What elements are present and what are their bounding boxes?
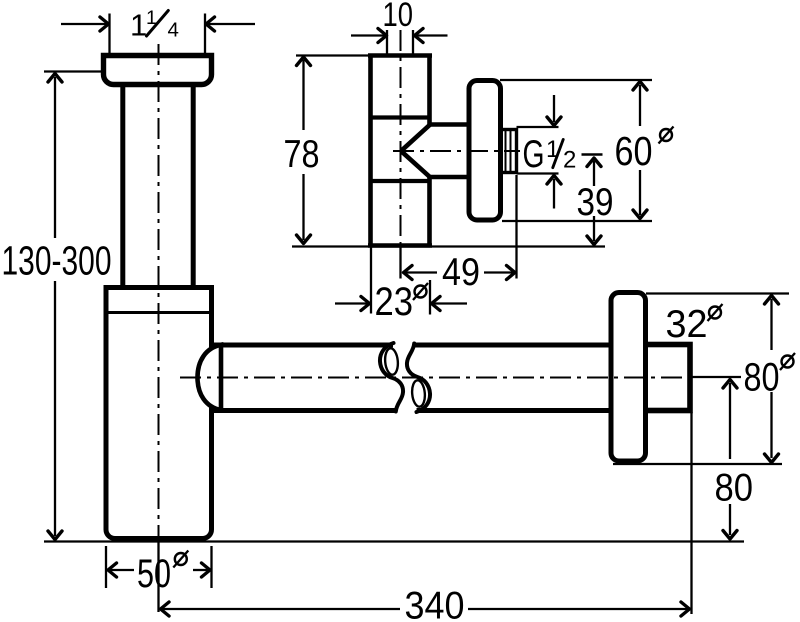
outlet pipe right piece: [415, 345, 615, 411]
valve cone seat: [401, 124, 431, 177]
dimension G1/2 thread height arrows: [517, 95, 562, 209]
svg-text:340: 340: [405, 585, 465, 622]
wall flange rosette: [611, 293, 646, 462]
wall pipe stub (80 dia): [643, 345, 690, 411]
dimension 130-300 (adjustable height): [2, 72, 112, 540]
dimension 78 (valve height): [284, 56, 606, 247]
dimension 49 (axis to thread end): [401, 175, 517, 294]
dimension 80 dia (wall flange): [613, 294, 795, 465]
trap cup body: [106, 288, 212, 539]
extension line trap bottom: [44, 540, 744, 542]
horizontal outlet pipe left piece fill: [212, 348, 394, 409]
pipe end dome cap: [198, 345, 222, 410]
svg-text:G: G: [523, 133, 545, 176]
svg-text:50: 50: [137, 552, 171, 596]
valve thread stub G1/2: [498, 130, 517, 173]
svg-text:23: 23: [375, 280, 414, 324]
centerline horizontal pipe axis: [180, 377, 692, 379]
dimension 39 (axis to valve bottom): [577, 155, 614, 245]
inlet nut flange 1 1/4: [104, 56, 212, 85]
svg-text:10: 10: [383, 0, 414, 34]
svg-text:80: 80: [744, 356, 780, 400]
dimension 1 1/4 (top nut): [61, 7, 255, 54]
svg-text:32: 32: [666, 303, 708, 346]
centerline vertical valve axis: [400, 30, 402, 246]
dimension 60 dia (valve flange): [500, 80, 674, 221]
label G1/2 thread: [523, 133, 577, 176]
valve outlet channel: [428, 125, 471, 178]
dimension 23 dia (valve body): [335, 247, 467, 325]
dimension 10 (valve top bore): [351, 0, 448, 55]
outlet pipe left piece walls: [212, 343, 394, 348]
valve body column: [368, 54, 432, 248]
dimension 340 (axis to wall): [159, 412, 692, 622]
trap rim line: [106, 311, 212, 314]
svg-text:39: 39: [577, 181, 614, 224]
pipe break symbol right: [407, 344, 430, 413]
svg-text:80: 80: [715, 467, 754, 510]
svg-text:49: 49: [442, 251, 480, 294]
dimension 50 dia (trap cup): [106, 546, 212, 596]
svg-text:130-300: 130-300: [2, 238, 112, 284]
svg-text:1: 1: [130, 8, 147, 43]
svg-text:2: 2: [563, 147, 576, 174]
centerline vertical trap axis: [158, 44, 160, 540]
pipe break symbol left: [380, 343, 403, 412]
svg-text:60: 60: [615, 128, 653, 174]
centerline horizontal valve axis: [393, 150, 520, 152]
svg-text:78: 78: [284, 133, 320, 176]
valve flange disc: [469, 81, 501, 221]
tailpipe (vertical inlet pipe): [123, 60, 193, 300]
label 32 dia (pipe): [666, 303, 723, 346]
dimension 80 (axis to bottom): [692, 377, 753, 539]
svg-text:4: 4: [168, 18, 179, 41]
